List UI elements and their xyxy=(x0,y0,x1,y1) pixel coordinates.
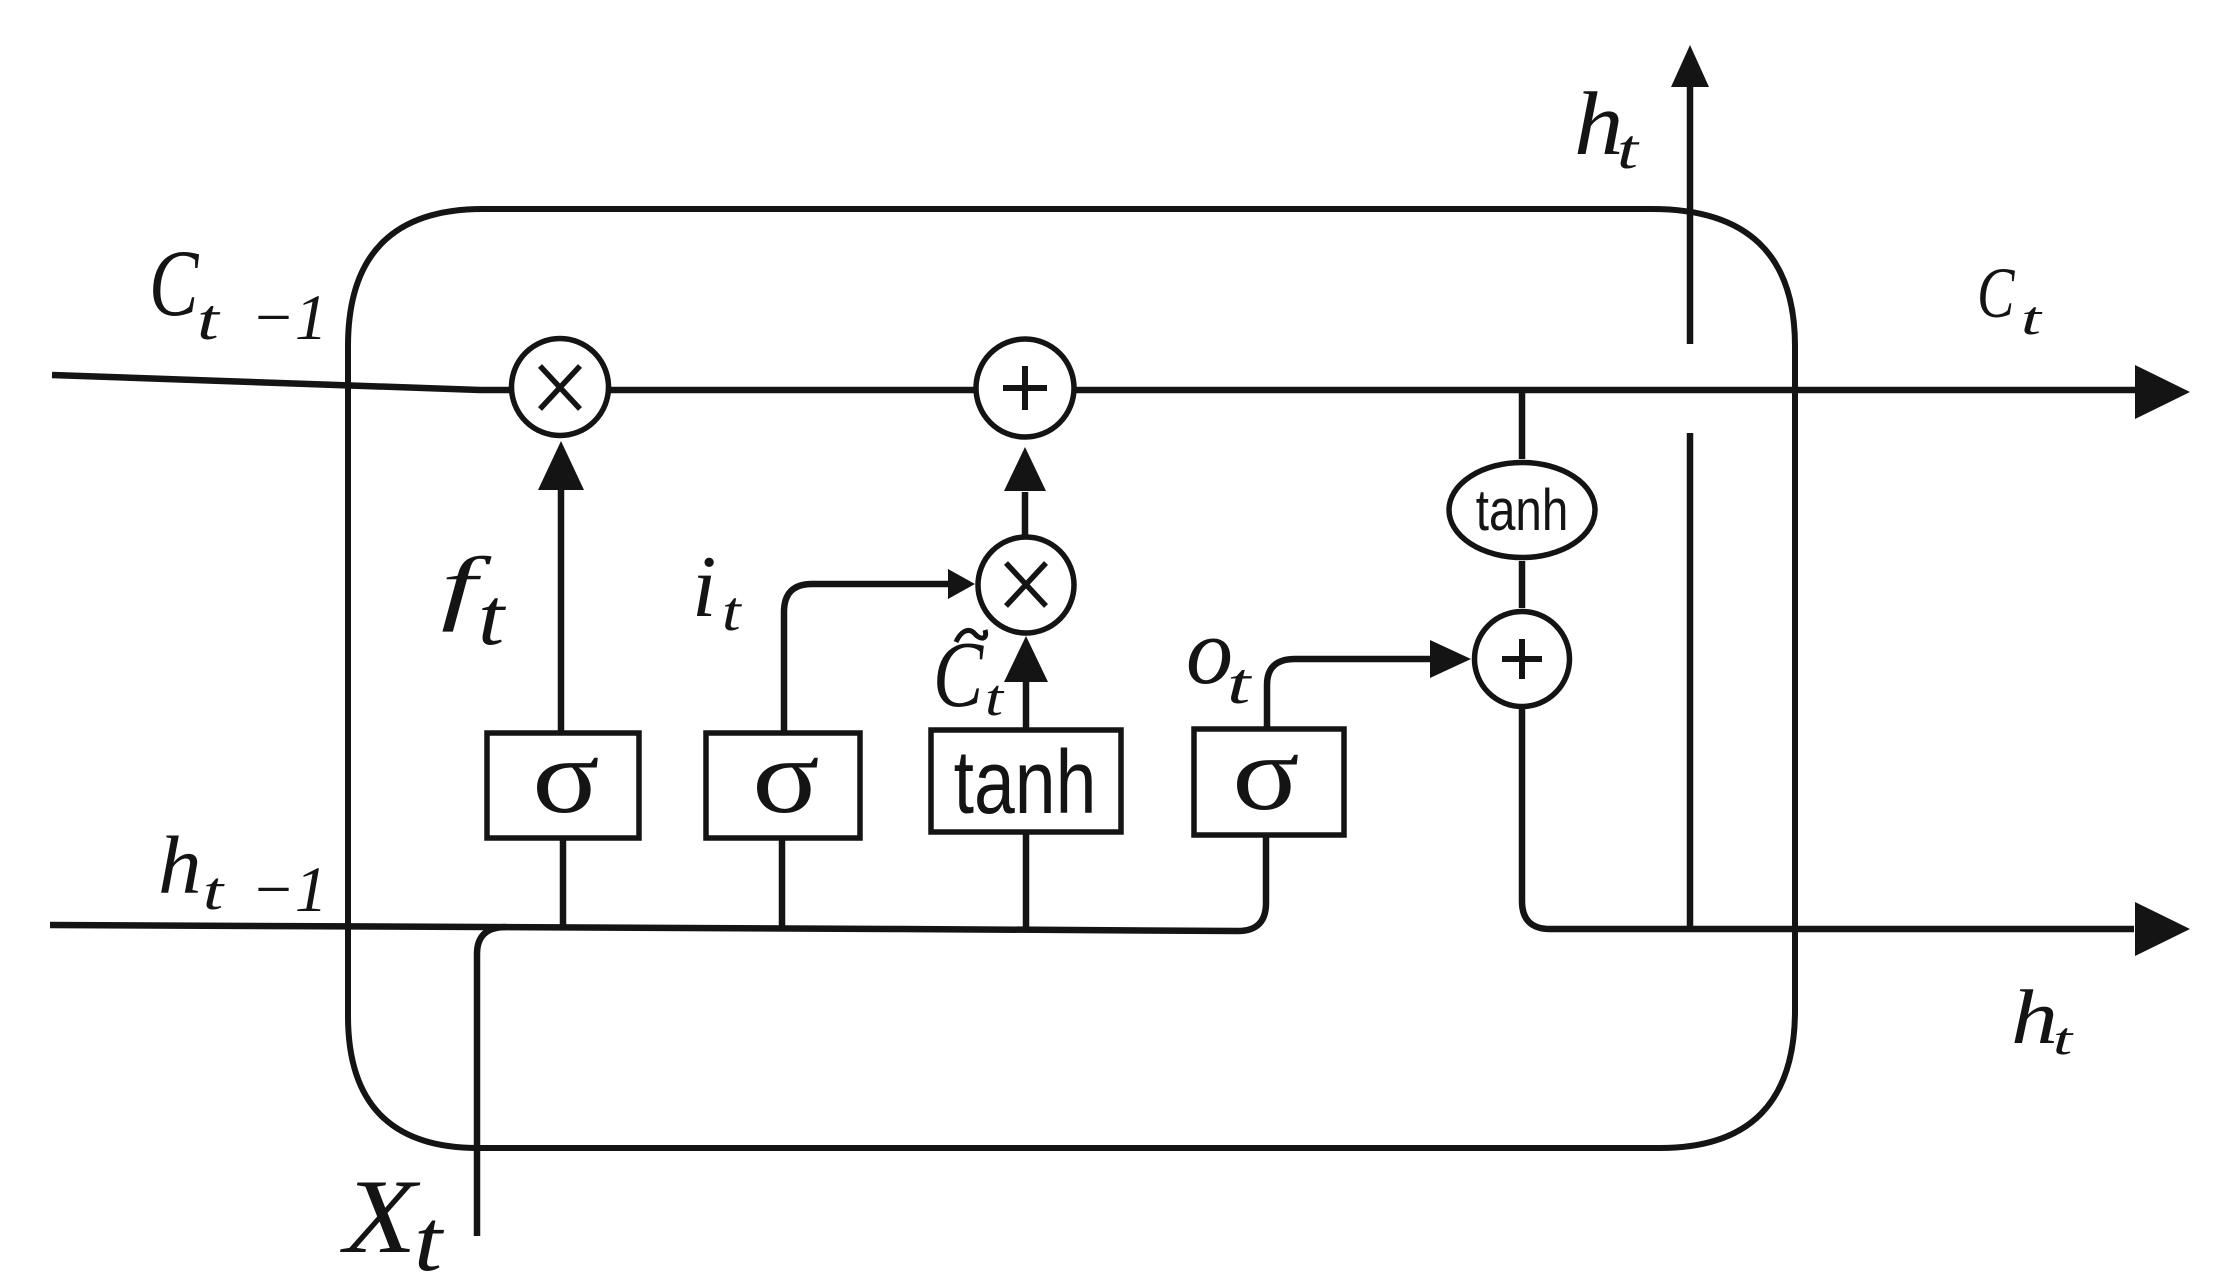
svg-text:t: t xyxy=(722,581,743,643)
svg-text:C: C xyxy=(149,231,199,336)
svg-text:t: t xyxy=(1617,119,1640,180)
svg-text:σ: σ xyxy=(532,719,599,836)
svg-text:C: C xyxy=(1977,252,2015,332)
svg-text:tanh: tanh xyxy=(954,733,1097,833)
svg-text:tanh: tanh xyxy=(1476,479,1569,544)
svg-text:t: t xyxy=(197,288,221,352)
svg-text:t: t xyxy=(2021,292,2043,345)
svg-text:t: t xyxy=(1227,652,1253,716)
svg-text:h: h xyxy=(2011,974,2058,1060)
svg-text:σ: σ xyxy=(752,719,819,836)
svg-text:o: o xyxy=(1186,600,1233,704)
svg-text:h: h xyxy=(158,820,202,912)
svg-text:C: C xyxy=(933,623,984,727)
svg-text:−1: −1 xyxy=(251,854,327,926)
svg-text:X: X xyxy=(340,1159,421,1276)
svg-text:t: t xyxy=(985,669,1005,726)
svg-text:t: t xyxy=(203,861,226,921)
svg-text:t: t xyxy=(414,1192,445,1278)
svg-text:−1: −1 xyxy=(251,282,327,354)
svg-text:t: t xyxy=(478,572,507,663)
svg-text:i: i xyxy=(692,539,716,636)
svg-text:σ: σ xyxy=(1232,716,1299,833)
svg-text:t: t xyxy=(2053,1013,2074,1064)
